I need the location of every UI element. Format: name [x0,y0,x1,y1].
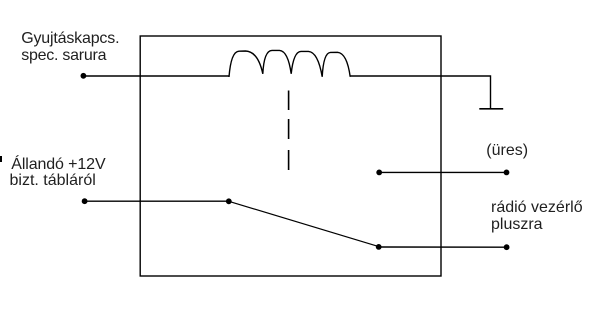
wire: coil to ground [350,76,490,109]
node: NC contact dot [376,170,382,176]
switch arm [229,201,379,246]
label: rádió vezérlő [491,200,583,216]
label: Gyujtáskapcs. [21,31,119,47]
wire: +12V lead to switch pivot [85,200,229,202]
label: spec. sarura [21,48,106,64]
relay box outline [140,36,441,276]
label: (üres) [486,143,528,159]
node: NO contact dot [376,244,382,250]
dashed armature link [288,91,290,171]
node: switch pivot dot [226,198,232,204]
ground symbol bar [479,108,503,110]
label: bizt. tábláról [10,173,96,189]
node: +12V terminal dot [82,198,88,204]
node: radio plus terminal dot [504,244,510,250]
wire: NO contact to radio plus terminal [379,246,507,248]
node: (üres) terminal dot [504,170,510,176]
label: Állandó +12V [11,157,105,173]
stray mark at left edge [0,156,2,162]
wire: NC contact to (üres) terminal [379,171,506,173]
wire: ignition lead to coil [83,75,229,77]
node: ignition terminal dot [81,73,87,79]
inductor relay coil [229,50,350,77]
label: pluszra [491,217,543,233]
